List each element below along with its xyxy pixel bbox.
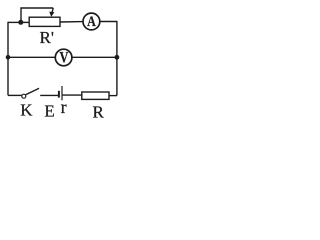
battery E: long thin plate bbox=[61, 86, 63, 100]
wire: rheostat to ammeter bbox=[60, 21, 83, 23]
svg-text:K: K bbox=[20, 101, 33, 120]
wire: voltmeter branch right bbox=[72, 56, 117, 58]
wire: slider arrow shaft bbox=[52, 8, 53, 12]
svg-text:R: R bbox=[93, 102, 105, 121]
node: junction dot right rail / voltmeter branch bbox=[115, 55, 120, 60]
wire: resistor R to bottom-right corner bbox=[109, 95, 117, 97]
wire: bottom-left to switch bbox=[8, 94, 22, 96]
wire: voltmeter branch left bbox=[8, 56, 55, 58]
wire: top-left horizontal from left rail corner to junction bbox=[8, 21, 21, 23]
slider arrowhead bbox=[49, 12, 54, 17]
svg-text:A: A bbox=[87, 13, 96, 30]
svg-text:E: E bbox=[44, 102, 54, 121]
node: junction dot left rail / voltmeter branch bbox=[6, 55, 11, 60]
wire: right rail vertical bbox=[116, 21, 118, 96]
wire: rheostat slider loop (up and over to arrow) bbox=[21, 8, 53, 22]
wire: ammeter to top-right corner bbox=[100, 21, 117, 23]
rheostat R' body bbox=[29, 17, 60, 26]
node: junction dot left-top bbox=[18, 20, 23, 25]
svg-text:V: V bbox=[60, 49, 69, 67]
wire: switch contact to battery bbox=[40, 94, 58, 96]
switch K lever bbox=[26, 88, 39, 95]
wire: left rail vertical bbox=[7, 22, 9, 96]
switch K pivot bbox=[22, 94, 26, 98]
voltmeter V bbox=[55, 49, 72, 66]
battery E: short thick plate bbox=[58, 91, 60, 98]
wire: battery to resistor R bbox=[63, 94, 82, 96]
wire: junction to rheostat left terminal bbox=[21, 21, 29, 23]
svg-text:R': R' bbox=[40, 28, 54, 47]
svg-text:r: r bbox=[61, 97, 67, 117]
resistor R body bbox=[82, 92, 109, 99]
ammeter A bbox=[83, 13, 100, 30]
